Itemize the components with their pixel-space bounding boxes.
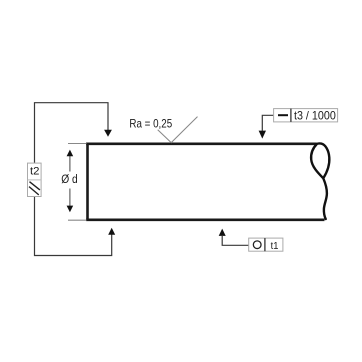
svg-text:t2: t2 — [30, 166, 40, 178]
svg-text:t3 / 1000: t3 / 1000 — [294, 109, 336, 123]
circularity symbol — [253, 241, 261, 249]
break line (teardrop + S-curve) at shaft right end — [311, 143, 329, 219]
bottom-left bracket leader from t2 frame — [35, 197, 116, 256]
svg-text:Ra = 0,25: Ra = 0,25 — [129, 117, 172, 131]
tolerance frame t2 (vertical, parallelism) — [28, 163, 42, 196]
parallelism symbol (rotated //) — [30, 182, 40, 190]
feature control frame t3 / 1000 (straightness) — [274, 109, 338, 123]
diameter dimension line upper segment — [67, 150, 74, 172]
svg-text:t1: t1 — [271, 240, 279, 252]
extension line top-left of shaft — [68, 143, 87, 145]
svg-text:Ø d: Ø d — [61, 174, 77, 186]
feature control frame t1 (circularity) — [249, 238, 283, 252]
label Ø d — [61, 174, 77, 186]
leader to circularity frame t1 — [219, 229, 249, 246]
surface roughness symbol — [158, 117, 198, 143]
straightness symbol — [278, 114, 288, 116]
shaft top edge — [86, 143, 317, 146]
diameter dimension line lower segment — [67, 189, 74, 213]
leader to straightness frame t3 — [259, 115, 274, 138]
shaft bottom edge — [86, 219, 324, 222]
shaft left edge — [86, 143, 89, 221]
extension line bottom-left of shaft — [68, 219, 87, 221]
label Ra = 0,25 — [129, 117, 172, 131]
top-left bracket leader to t2 frame — [35, 103, 112, 163]
